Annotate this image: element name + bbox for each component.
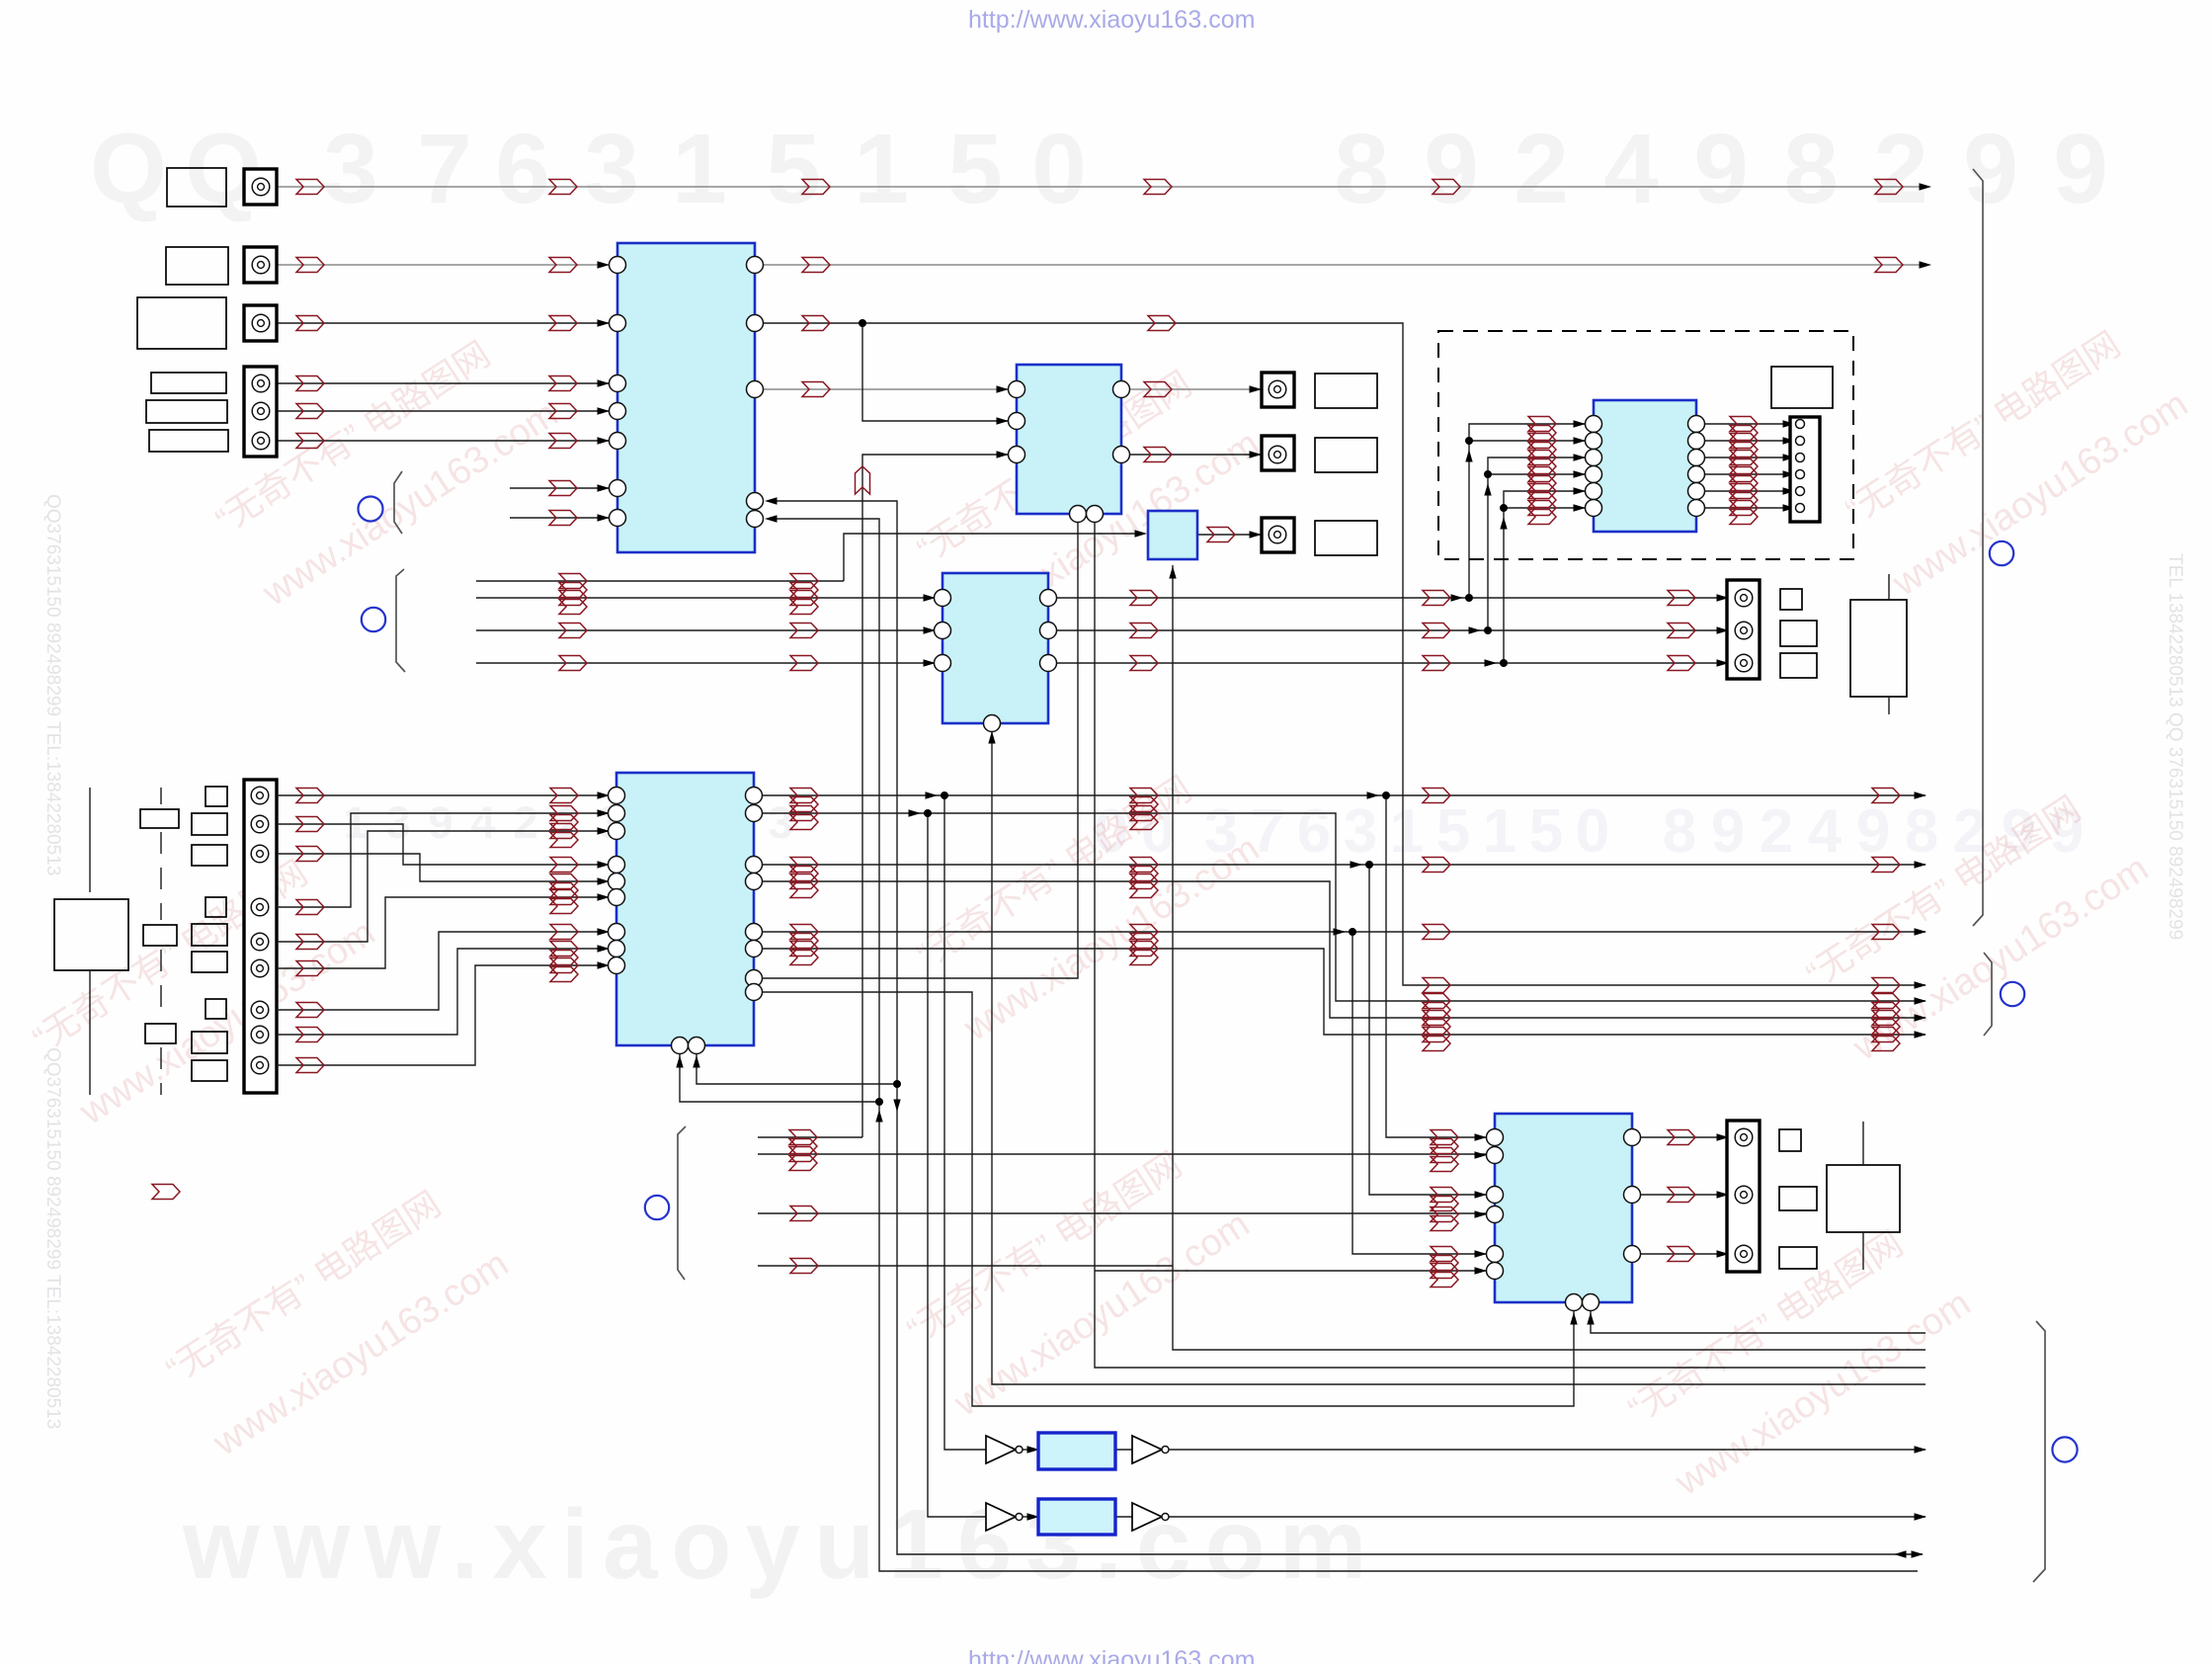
connector B3	[1262, 518, 1294, 552]
junction dots feeding IC5 verticals	[1465, 594, 1508, 667]
wire row 540 continuation into IC7 input	[1078, 533, 1139, 535]
wire vertical C from row671 up into dashed box row 497	[1504, 491, 1520, 663]
arrow end row2	[1920, 261, 1932, 268]
IC5 output double arrows	[1730, 417, 1758, 525]
IC5 right pins	[1688, 416, 1705, 517]
small label sq M4	[205, 897, 226, 917]
label box B3	[1315, 521, 1377, 555]
jack A1	[1735, 589, 1753, 607]
up arrowheads into IC4 bottom pins	[1570, 1312, 1594, 1325]
blue circle group3	[645, 1196, 669, 1219]
bracket right mid	[1984, 953, 1992, 1036]
IC3 left pins	[609, 788, 625, 974]
arrows rows 388/416/446	[296, 376, 577, 449]
header pins	[1796, 420, 1805, 513]
wire E5 up to row841	[277, 831, 609, 942]
wire IC7 bottom vertical through stub row4 down to row 1366	[1173, 565, 1925, 1350]
arrowhead ends long rows	[1915, 791, 1927, 935]
IC3 input arrowheads	[598, 791, 611, 968]
label box M8	[192, 1032, 227, 1053]
arrow IC2 out row460	[1144, 448, 1172, 462]
wire	[277, 410, 609, 412]
svg-text:8: 8	[1783, 114, 1839, 224]
wire IC4 bottom pin2 down to row 1349	[1591, 1311, 1925, 1333]
inverter U9a	[986, 1503, 1016, 1531]
IC5 left pins	[1586, 416, 1602, 517]
wire IC5 output rows to 6-pin connector	[1696, 423, 1790, 425]
wire branch row 480	[1488, 473, 1520, 475]
wire stub row D 671 into IC6	[476, 662, 935, 664]
svg-text:“无奇不有” 电路图网: “无奇不有” 电路图网	[159, 1183, 448, 1390]
label box M2	[192, 813, 227, 835]
svg-text:9: 9	[428, 797, 452, 848]
arrowheads into connector C	[1717, 1133, 1730, 1257]
small arrowheads before junctions	[1451, 594, 1498, 666]
IC5 driver	[1594, 400, 1696, 532]
wire	[277, 440, 609, 442]
arrowhead end row 1535	[1915, 1513, 1927, 1520]
wire row3 net Y1 right to corner down to row997	[755, 323, 1925, 985]
IC3 output arrows col3	[790, 789, 818, 965]
label box M6	[192, 952, 227, 972]
IC2 right pins	[1113, 381, 1130, 463]
connector B1	[1262, 373, 1294, 407]
wire stub row B 605 into IC6	[476, 597, 935, 599]
monitor box A	[1850, 600, 1907, 697]
svg-text:9: 9	[1963, 114, 2018, 224]
label box M9	[192, 1060, 227, 1081]
svg-text:4: 4	[470, 797, 495, 848]
wire IC2 bottom pin2 vertical down to row 1384	[1095, 514, 1925, 1368]
label sq C1	[1779, 1129, 1801, 1151]
wire IC2 bottom pin1 vertical to IC3 pin row 989	[754, 514, 1078, 978]
wire E1 straight to IC3	[277, 794, 609, 796]
arrowhead ends 4-group	[1915, 981, 1927, 1038]
arrowhead into connector B3	[1250, 531, 1263, 538]
label box B2	[1315, 438, 1377, 472]
wire E6 up to row908	[277, 897, 609, 968]
IC3 right pins	[746, 788, 763, 1001]
svg-text:7: 7	[417, 114, 472, 224]
label box L4b	[146, 400, 227, 423]
IC1 left pins	[610, 257, 626, 527]
fuse box F1	[140, 809, 179, 828]
wire stub row A 588	[476, 580, 844, 582]
wire row 540 from corner into IC7	[844, 534, 1078, 581]
svg-text:www.xiaoyu163.com: www.xiaoyu163.com	[182, 1489, 1380, 1600]
arrows rows into connector A	[1668, 591, 1695, 671]
jack J1 circle	[252, 178, 270, 196]
jack B2	[1269, 446, 1286, 463]
arrows 4-group col6	[1872, 978, 1900, 1051]
arrowhead row875 before right dot	[1351, 861, 1363, 868]
arrow end row1	[1920, 183, 1932, 190]
wire junction row327 branch down to IC2 pin2	[862, 323, 1008, 421]
wire IC3 out row 960 to corner down row 1047	[754, 949, 1925, 1035]
wire stub row 1151	[758, 1136, 862, 1138]
svg-text:www.xiaoyu163.com: www.xiaoyu163.com	[1668, 1283, 1978, 1504]
label box L4a	[151, 373, 226, 393]
wire delay box1 to inverter1b	[1115, 1449, 1132, 1451]
svg-text:QQ376315150 892498299 TEL:1384: QQ376315150 892498299 TEL:13842280513	[42, 494, 63, 875]
jack E5	[251, 933, 269, 951]
delay box DL1	[1038, 1433, 1115, 1469]
IC3 bottom pins	[672, 1038, 705, 1054]
svg-text:4: 4	[1808, 797, 1843, 866]
arrowhead into IC2 pin3	[997, 451, 1010, 458]
connector J1	[244, 169, 277, 205]
svg-text:5: 5	[947, 114, 1003, 224]
wire IC2 out row 394 gray to connector B1	[1121, 388, 1269, 390]
label box M3	[192, 845, 227, 866]
svg-text:QQ376315150 892498299 TEL:1384: QQ376315150 892498299 TEL:13842280513	[42, 1047, 63, 1429]
label box D5	[1771, 367, 1833, 408]
up-chevron on vertical 873	[856, 466, 870, 494]
wire IC6 bottom pin vertical down to row 1401	[992, 732, 1925, 1384]
wire inverter1 bubble to delay box	[1023, 1449, 1036, 1451]
label box L1	[167, 168, 226, 207]
label box L3	[137, 297, 226, 349]
junction dot row823 to inverter2	[924, 809, 932, 817]
connector J3	[244, 305, 277, 341]
svg-text:www.xiaoyu163.com: www.xiaoyu163.com	[946, 1204, 1257, 1425]
wire vertical from row805 junction down to IC4 pin row 1151	[1386, 795, 1487, 1137]
diagonal pink watermarks	[207, 320, 565, 615]
IC6 bottom pin	[984, 715, 1001, 732]
wire	[1520, 490, 1585, 492]
wire delay box2 to inverter2b	[1115, 1516, 1132, 1518]
svg-text:“无奇不有” 电路图网: “无奇不有” 电路图网	[1799, 788, 2088, 995]
arrows row3	[296, 316, 1176, 331]
wire	[1696, 440, 1790, 442]
wire IC2 out row 460 to connector B2	[1121, 454, 1269, 456]
IC4 left pins	[1487, 1129, 1504, 1280]
wire IC3 out row 875 long to right	[754, 864, 1925, 866]
connector J4 (3 jacks)	[244, 367, 277, 457]
jack J4-1	[252, 374, 270, 392]
wire vertical A from row605 up into dashed box row 429	[1469, 424, 1520, 598]
svg-text:5: 5	[1529, 797, 1563, 866]
svg-text:4: 4	[1603, 114, 1659, 224]
inverter U8b bubble	[1162, 1447, 1169, 1454]
IC3 output arrows col4	[1130, 789, 1158, 965]
arrowhead row943 before right dot	[1334, 928, 1347, 935]
left DC block: vertical line top	[89, 788, 91, 892]
svg-text:2: 2	[1760, 797, 1793, 866]
wire junction row823 branch down to inverter2 row	[928, 813, 986, 1517]
wire stub row 494 into IC1	[510, 487, 609, 489]
svg-text:8: 8	[1334, 114, 1389, 224]
wire IC7 out row 540 to connector B3	[1197, 534, 1269, 536]
svg-text:http://www.xiaoyu163.com: http://www.xiaoyu163.com	[968, 1646, 1255, 1664]
wire	[1520, 457, 1585, 458]
connector A (3 jacks)	[1727, 580, 1760, 679]
junction dot row943 col right	[1349, 928, 1356, 936]
IC1 right pins	[747, 257, 764, 528]
junction dot IC3 pin1 elbow	[875, 1098, 883, 1106]
dashed option box	[1438, 331, 1853, 559]
arrows IC3 input column	[550, 789, 578, 982]
IC5 input double arrows	[1528, 417, 1556, 525]
label box L2	[166, 247, 228, 285]
blue circle group2	[362, 608, 385, 631]
jack E9	[251, 1056, 269, 1074]
svg-text:3: 3	[584, 114, 639, 224]
wire IC1 bottom-right pin row 509 to vertical 908	[768, 501, 1923, 1554]
jack A2	[1735, 622, 1753, 639]
IC2 switcher	[1017, 365, 1121, 514]
bracket right bottom	[2033, 1321, 2045, 1582]
inverter U9b bubble	[1162, 1514, 1169, 1521]
IC5 output arrowheads	[1783, 420, 1796, 511]
svg-text:www.xiaoyu163.com: www.xiaoyu163.com	[205, 1243, 516, 1464]
fuse box F2	[143, 925, 177, 946]
label box M5	[192, 924, 227, 946]
IC6 right pins	[1040, 590, 1057, 672]
IC1 video decoder	[617, 243, 755, 552]
wire IC3 out row 823 to corner down row 1013	[754, 813, 1925, 1001]
svg-text:5: 5	[766, 114, 821, 224]
inverter U8a	[986, 1436, 1016, 1463]
jack E1	[251, 787, 269, 804]
svg-text:9: 9	[2053, 114, 2108, 224]
label sq A1	[1780, 589, 1802, 610]
svg-text:3: 3	[768, 797, 792, 848]
wire vertical B from row638 up into dashed box row 463	[1488, 458, 1520, 630]
jack E8	[251, 1026, 269, 1043]
arrows row1	[296, 180, 1903, 195]
arrowhead row823 before dot	[909, 809, 922, 816]
svg-text:9: 9	[1856, 797, 1890, 866]
junction row3	[859, 319, 866, 327]
svg-text:2: 2	[513, 797, 537, 848]
svg-text:5: 5	[1436, 797, 1470, 866]
svg-text:0: 0	[1576, 797, 1609, 866]
arrows stub row A 588 double	[559, 574, 818, 598]
IC2 left pins	[1009, 381, 1025, 463]
arrowhead up into IC6 bottom pin	[988, 731, 995, 744]
dashed divider with fuse boxes	[160, 788, 162, 1095]
monitor stem A bottom	[1888, 697, 1890, 714]
jack E4	[251, 898, 269, 916]
IC5 input arrowheads	[1574, 420, 1587, 511]
arrowhead into connector B1	[1250, 385, 1263, 392]
arrowheads end row 1570	[1894, 1550, 1924, 1557]
junction dot IC3 pin2 elbow	[893, 1080, 901, 1088]
junction dot row805 col right	[1382, 791, 1390, 799]
IC4 right pins	[1624, 1129, 1641, 1263]
connector J2	[244, 247, 277, 283]
jack C2	[1735, 1186, 1753, 1204]
IC6 left pins	[935, 590, 951, 672]
arrowhead into IC7	[1135, 530, 1148, 537]
label box C3	[1779, 1247, 1817, 1269]
junction dot row875 col right	[1365, 861, 1373, 869]
arrows rows 605/638/671 col5	[1423, 591, 1450, 671]
connector C (3 jacks)	[1727, 1121, 1760, 1272]
svg-text:3: 3	[1344, 797, 1377, 866]
wire E8 up to row960	[277, 949, 609, 1035]
delay box DL2	[1038, 1499, 1115, 1535]
wire row2 net VIDEO2 left	[277, 264, 609, 266]
blue circle group1	[359, 497, 383, 522]
arrows long rows col5	[1423, 789, 1450, 940]
small label sq M1	[205, 787, 227, 806]
wire IC3 bottom pin2 elbow to vertical 908	[696, 1054, 897, 1084]
svg-text:TEL 13842280513 QQ 376315150 8: TEL 13842280513 QQ 376315150 892498299	[2165, 553, 2185, 940]
wire IC6 out row 605 to right connector	[1048, 597, 1735, 599]
wire inverter1b output long row to right	[1167, 1449, 1925, 1451]
arrows stub row1168 double	[789, 1147, 817, 1171]
blue circle right tall	[1990, 541, 2013, 565]
svg-text:1: 1	[343, 797, 368, 848]
wire IC4 out row 1269 to connector C	[1632, 1253, 1735, 1255]
up arrowheads into IC3 bottom pins	[676, 1055, 699, 1068]
arrows IC4 inputs double col	[1431, 1130, 1458, 1288]
monitor box C	[1827, 1165, 1900, 1232]
bracket right tall	[1973, 169, 1983, 926]
jack E7	[251, 1001, 269, 1019]
arrows rows 605/638/671 col4	[1130, 591, 1158, 671]
connector B2	[1262, 436, 1294, 470]
wire E2 down to row875	[277, 824, 609, 865]
IC1 bottom-right feed arrowheads	[765, 497, 778, 522]
svg-text:0: 0	[1031, 114, 1087, 224]
wire vertical with up-arrow feeding IC2 pin3 from stub row1151	[862, 455, 1008, 1137]
wire row2 net VIDEO2 right	[755, 264, 1924, 266]
arrowhead into connector B2	[1250, 451, 1263, 458]
up arrowheads on IC5 feed verticals	[1465, 450, 1507, 530]
label box B1	[1315, 374, 1377, 408]
svg-text:www.xiaoyu163.com: www.xiaoyu163.com	[1885, 383, 2195, 605]
wire row 1286 into IC4 pin6	[1095, 1270, 1487, 1272]
wire stub row 524 into IC1	[510, 517, 609, 519]
jack B3	[1269, 526, 1286, 543]
jack E2	[251, 815, 269, 833]
junction dots on dashed-box verticals	[1465, 437, 1508, 512]
connector D 6-pin header	[1790, 417, 1820, 522]
wire IC5 input rows	[1520, 423, 1585, 425]
wire inverter2b output long row to right	[1167, 1516, 1925, 1518]
arrowhead up into IC7 bottom	[1169, 566, 1176, 579]
jack E6	[251, 959, 269, 977]
svg-text:6: 6	[495, 114, 550, 224]
svg-text:Q: Q	[90, 114, 167, 224]
arrowheads into IC6 pins	[924, 594, 937, 666]
arrowhead into IC2 pin2	[997, 417, 1010, 424]
wire IC3 out row 1004 to vertical 984 to IC4 bottom pin1	[754, 992, 1574, 1406]
jack C1	[1735, 1128, 1753, 1146]
arrowhead into delay box1	[1027, 1446, 1040, 1453]
wire E3 down to row892	[277, 854, 609, 881]
IC7 small buffer	[1148, 511, 1197, 559]
wire	[1520, 440, 1585, 442]
wire	[1696, 507, 1790, 509]
wire stub row3 1228 to IC4 pin 1229	[758, 1212, 1487, 1214]
left DC block: vertical line bottom	[89, 970, 91, 1095]
wire	[1520, 473, 1585, 475]
wire stub row2 1168 to IC4 pin 1169	[758, 1153, 1487, 1155]
svg-text:8: 8	[1663, 797, 1696, 866]
svg-text:http://www.xiaoyu163.com: http://www.xiaoyu163.com	[968, 6, 1255, 34]
brace group2	[396, 569, 405, 672]
arrowhead into delay box2	[1027, 1513, 1040, 1520]
wire IC4 out row 1209 to connector C	[1632, 1194, 1735, 1196]
wire IC6 out row 638 to right connector	[1048, 629, 1735, 631]
wire branch row 514	[1504, 507, 1520, 509]
jack J2 circle	[252, 256, 270, 274]
jack J4-3	[252, 432, 270, 450]
wire IC3 out row 943 long to right	[754, 931, 1925, 933]
inverter U9b	[1132, 1503, 1162, 1531]
arrows 4-group col5	[1423, 978, 1450, 1051]
arrow IC7 out	[1207, 528, 1235, 542]
monitor stem C top	[1862, 1122, 1864, 1165]
wire row1 net VIDEO1	[277, 186, 1924, 188]
arrowhead row805 before dot	[926, 791, 939, 798]
svg-text:1: 1	[672, 114, 727, 224]
fuse box F3	[145, 1024, 176, 1043]
jack J3 circle	[252, 314, 270, 332]
svg-text:9: 9	[1711, 797, 1745, 866]
junction dot row805 to inverter1	[941, 791, 948, 799]
wire E7 up to row943	[277, 932, 609, 1010]
jack C3	[1735, 1245, 1753, 1263]
monitor stem C bottom	[1862, 1232, 1864, 1270]
label box A2	[1780, 621, 1817, 646]
left DC block: transformer square	[54, 899, 128, 970]
IC4 input arrowheads	[1475, 1133, 1488, 1274]
svg-text:2: 2	[1873, 114, 1928, 224]
svg-text:2: 2	[1514, 114, 1569, 224]
svg-text:6: 6	[1297, 797, 1331, 866]
inverter U8b	[1132, 1436, 1162, 1463]
blue circle right bottom	[2052, 1437, 2077, 1461]
IC2 bottom pins	[1070, 506, 1104, 523]
arrows IC4 outputs	[1668, 1130, 1695, 1262]
wire	[1696, 490, 1790, 492]
arrows connector E column	[296, 789, 324, 1073]
IC4 bottom pins	[1566, 1294, 1599, 1311]
IC4 output encoder	[1495, 1114, 1632, 1302]
wire inverter2 bubble to delay box2	[1023, 1516, 1036, 1518]
svg-text:1: 1	[854, 114, 909, 224]
svg-text:3: 3	[385, 797, 410, 848]
wire IC6 out row 671 to right connector	[1048, 662, 1735, 664]
wire IC3 bottom pin1 elbow to vertical 890	[680, 1054, 879, 1102]
brace group3	[678, 1126, 686, 1280]
label box C2	[1779, 1187, 1817, 1210]
wire vertical from row943 junction down to IC4 pin row 1269	[1352, 932, 1487, 1254]
wire stub row4 1281 teeing vertical 1187	[758, 1265, 1173, 1267]
svg-text:3: 3	[323, 114, 378, 224]
inverter U8a bubble	[1016, 1447, 1023, 1454]
up arrowhead below junction on v890	[875, 1110, 882, 1123]
arrows long rows col6	[1872, 789, 1900, 940]
IC1 input arrowheads	[598, 261, 611, 521]
brace group1	[394, 471, 402, 534]
arrows stub row C 638	[559, 624, 818, 638]
monitor stem A top	[1888, 574, 1890, 600]
wire rows into IC1 from connector group	[277, 382, 609, 384]
IC6 encoder	[942, 573, 1048, 723]
arrow row 392 gray	[802, 382, 830, 397]
svg-text:“无奇不有” 电路图网: “无奇不有” 电路图网	[900, 1143, 1188, 1351]
arrow stub row1228	[790, 1206, 818, 1221]
IC3 main processor	[616, 773, 754, 1045]
svg-text:9: 9	[1424, 114, 1479, 224]
arrowhead into IC2 pin1	[997, 385, 1010, 392]
